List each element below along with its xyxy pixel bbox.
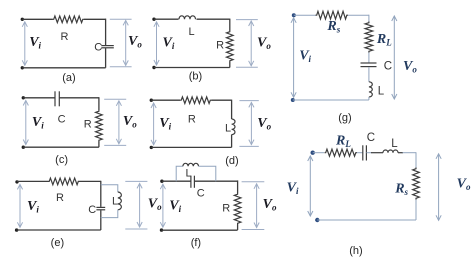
svg-text:Vi: Vi	[27, 199, 39, 215]
svg-text:(a): (a)	[62, 72, 75, 84]
svg-text:(d): (d)	[225, 155, 238, 167]
wire top 2 (h)	[357, 152, 363, 154]
Vo measure top bar (f)	[242, 181, 265, 183]
wire right lower (e)	[100, 210, 102, 230]
inductor L lead left (h)	[371, 152, 383, 154]
wire right upper (c)	[98, 97, 100, 110]
node top-left (d)	[150, 99, 153, 102]
wire right lower (a)	[105, 48, 107, 68]
node top-left (b)	[152, 18, 155, 21]
wire top-left (f)	[162, 180, 191, 182]
svg-text:(g): (g)	[338, 112, 351, 124]
resistor R (a)	[53, 16, 85, 23]
capacitor C (h)	[362, 145, 364, 160]
svg-text:Vi: Vi	[163, 35, 175, 51]
svg-text:L: L	[225, 123, 231, 135]
wire L-branch left (f)	[176, 166, 183, 181]
svg-text:(e): (e)	[51, 237, 64, 249]
svg-text:(c): (c)	[55, 154, 68, 166]
wire bottom (f)	[162, 229, 238, 231]
wire bottom (b)	[154, 67, 230, 69]
node bottom-left (e)	[15, 228, 18, 231]
wire top-right (g)	[348, 14, 369, 16]
wire top 1 (h)	[313, 152, 324, 154]
svg-text:L: L	[186, 167, 192, 179]
Vo measure arrow (e)	[139, 183, 141, 227]
inductor L (h)	[383, 150, 398, 153]
wire top-right (f)	[194, 180, 237, 182]
svg-text:L: L	[112, 195, 118, 207]
wire top 3 (h)	[366, 152, 371, 154]
wire top 4 (h)	[403, 152, 417, 154]
inductor L lead right (h)	[398, 152, 403, 154]
inductor L (b)	[179, 16, 196, 19]
Vo measure arrow (d)	[250, 102, 252, 144]
capacitor C (e)	[96, 206, 105, 208]
svg-text:Vi: Vi	[169, 198, 181, 214]
Vi measure arrow (d)	[153, 103, 155, 145]
svg-text:Vo: Vo	[403, 59, 417, 75]
Vi measure arrow (b)	[156, 22, 158, 65]
svg-text:Vo: Vo	[123, 114, 137, 130]
svg-text:L: L	[391, 138, 398, 150]
svg-text:C: C	[88, 204, 96, 216]
svg-text:Vo: Vo	[263, 197, 277, 213]
circuit (h) series RL-C-L with shunt Rs	[287, 132, 471, 257]
wire top-left (b)	[154, 18, 179, 20]
node top-left (g)	[292, 13, 296, 17]
svg-text:(b): (b)	[189, 71, 202, 83]
svg-text:R: R	[222, 202, 230, 214]
svg-text:Vi: Vi	[299, 48, 311, 64]
capacitor C (f)	[190, 176, 192, 188]
Vo measure top bar (a)	[110, 18, 132, 20]
wire top-left (g)	[294, 14, 316, 16]
wire top-right (c)	[59, 97, 99, 99]
Vo measure bottom bar (a)	[110, 66, 132, 68]
svg-text:Vi: Vi	[29, 35, 41, 51]
wire top-left (a)	[22, 18, 52, 20]
node top-left (a)	[21, 18, 24, 21]
svg-text:Vo: Vo	[257, 35, 271, 51]
svg-text:C: C	[94, 41, 102, 53]
Vo measure arrow (a)	[125, 20, 127, 65]
node bottom-left (h)	[315, 218, 319, 222]
Vo measure arrow (f)	[256, 184, 258, 228]
svg-text:R: R	[84, 119, 92, 131]
Vo measure bottom bar (e)	[125, 228, 147, 230]
svg-text:C: C	[367, 132, 375, 144]
svg-text:R: R	[216, 40, 224, 52]
svg-text:Vi: Vi	[287, 181, 299, 197]
inductor L (e)	[118, 192, 122, 210]
svg-text:Rs: Rs	[326, 19, 340, 35]
Vi measure arrow (f)	[162, 184, 164, 227]
Vo measure arrow (h)	[438, 154, 440, 221]
wire top-right (a)	[84, 18, 106, 20]
wire right lower (c)	[98, 142, 100, 148]
capacitor C (a)	[101, 45, 114, 47]
Vo measure top bar (b)	[236, 19, 258, 21]
wire bottom (h)	[317, 219, 416, 221]
Vi measure arrow (e)	[19, 184, 21, 227]
node top-left (f)	[160, 180, 163, 183]
svg-text:Vo: Vo	[128, 34, 142, 50]
svg-text:L: L	[378, 86, 385, 98]
circuit (f) parallel L-C with shunt R	[160, 163, 277, 249]
svg-text:Vo: Vo	[257, 116, 271, 132]
Vo measure arrow (b)	[250, 21, 252, 66]
svg-text:RL: RL	[335, 133, 351, 149]
Vo measure top bar (c)	[104, 98, 126, 100]
Vi measure arrow (a)	[24, 22, 26, 66]
inductor L (f)	[183, 163, 199, 166]
node bottom-left (g)	[291, 98, 295, 102]
svg-text:RL: RL	[376, 32, 392, 48]
wire bottom (g)	[293, 99, 369, 101]
svg-text:(h): (h)	[349, 245, 362, 257]
Vi measure arrow / left wire (g)	[293, 18, 295, 98]
node top-left (h)	[311, 151, 315, 155]
node bottom-left (c)	[22, 146, 25, 149]
resistor R (d)	[180, 97, 212, 104]
svg-text:L: L	[189, 26, 195, 38]
svg-text:R: R	[188, 113, 196, 125]
Vo measure bottom bar (f)	[242, 229, 265, 231]
resistor RL (h)	[325, 149, 358, 156]
wire top-right (d)	[212, 99, 232, 101]
node top-left (e)	[15, 180, 18, 183]
inductor L (g)	[369, 82, 372, 97]
circuit (a) R-C lowpass	[21, 16, 143, 84]
wire top-left (e)	[17, 180, 48, 182]
Vi measure arrow (h)	[309, 156, 311, 216]
capacitor C (g)	[361, 62, 377, 64]
svg-text:(f): (f)	[191, 237, 201, 249]
circuit (b) L-R	[152, 16, 271, 83]
node bottom-left (a)	[21, 66, 24, 69]
wire L-branch right (f)	[199, 166, 216, 181]
svg-text:Vo: Vo	[148, 197, 162, 213]
svg-text:C: C	[384, 60, 392, 72]
wire bottom (c)	[23, 146, 99, 148]
wire top-left (d)	[151, 99, 180, 101]
svg-text:Vi: Vi	[32, 115, 44, 131]
resistor RL (g)	[365, 22, 373, 53]
node bottom-left (b)	[152, 66, 155, 69]
circuit (d) R-L	[150, 97, 272, 167]
Vi measure arrow (c)	[25, 101, 27, 145]
node bottom-left (d)	[150, 146, 153, 149]
wire right 1 (g)	[368, 15, 370, 22]
wire right 4 (g)	[368, 97, 370, 100]
wire top-right (b)	[197, 18, 230, 20]
svg-text:Vo: Vo	[457, 177, 471, 193]
svg-text:R: R	[61, 31, 69, 43]
resistor R (b)	[227, 31, 234, 63]
wire right upper (h)	[415, 152, 417, 167]
wire right 2 (g)	[368, 53, 370, 63]
wire right upper (f)	[237, 180, 239, 193]
Vo measure bottom bar (b)	[236, 66, 258, 68]
resistor R (c)	[96, 110, 103, 142]
node top-left (c)	[22, 96, 25, 99]
wire bottom (e)	[17, 229, 101, 231]
wire L-branch top (e)	[101, 185, 118, 192]
wire right upper (a)	[105, 19, 107, 46]
capacitor C (c)	[54, 91, 56, 106]
circuit (e) R with parallel C-L tank	[15, 178, 162, 249]
Vo measure top bar (e)	[125, 180, 147, 182]
svg-text:C: C	[197, 187, 205, 199]
wire right upper (d)	[231, 100, 233, 119]
wire L-branch bottom (e)	[101, 210, 118, 218]
Vo measure bottom bar (c)	[104, 144, 126, 146]
circuit (c) C-R highpass	[22, 91, 138, 166]
svg-text:C: C	[58, 114, 66, 126]
wire right upper (e)	[100, 181, 102, 207]
wire bottom (d)	[151, 146, 231, 148]
wire top-right (e)	[80, 180, 101, 182]
resistor Rs (g)	[316, 11, 349, 19]
resistor Rs (h)	[413, 168, 420, 200]
Vo measure arrow (c)	[118, 101, 120, 144]
wire top-left (c)	[23, 97, 55, 99]
circuit (g) Rs with series RL-C-L	[291, 11, 418, 124]
Vo measure arrow (g)	[393, 16, 395, 99]
wire right lower (f)	[237, 225, 239, 231]
wire right 3 (g)	[368, 67, 370, 82]
Vo measure bottom bar (d)	[239, 145, 258, 147]
svg-text:Vi: Vi	[159, 116, 171, 132]
Vo measure top bar (d)	[239, 100, 258, 102]
resistor R (f)	[234, 193, 241, 225]
wire right lower (h)	[415, 200, 417, 221]
node bottom-left (f)	[160, 228, 163, 231]
wire bottom (a)	[22, 67, 105, 69]
svg-text:R: R	[56, 192, 64, 204]
wire right lower (d)	[231, 135, 233, 148]
wire right upper (b)	[229, 19, 231, 31]
inductor L (d)	[232, 119, 235, 135]
resistor R (e)	[48, 178, 80, 185]
svg-text:Rs: Rs	[394, 182, 408, 198]
wire right lower (b)	[229, 62, 231, 68]
